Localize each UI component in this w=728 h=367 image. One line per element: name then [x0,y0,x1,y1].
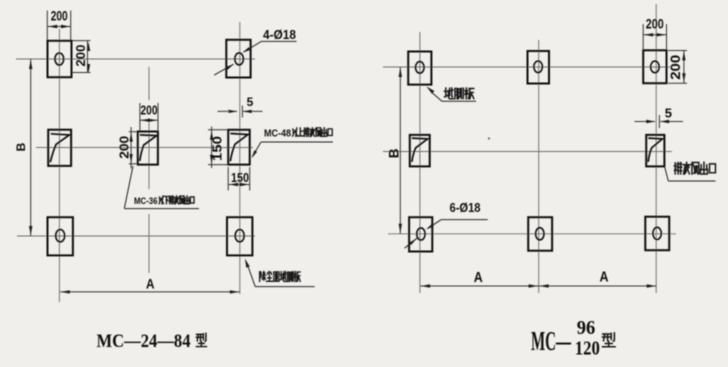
label paihuifa chukou (Q5 callout) [665,162,716,181]
ash valve outlet plate P4 (middle-center) [138,132,158,165]
dimension 150 (width of P5) [228,167,250,191]
svg-text:MC—: MC— [531,326,572,356]
dimension 5 (offset at Q5 centerline) [634,105,683,128]
dimension 200 (height of P4) [117,127,138,169]
svg-text:A: A [146,275,155,291]
svg-text:200: 200 [117,136,132,159]
anchor plate Q1 (top-left, right diagram) [408,52,431,85]
dimension A (column spacing, left diagram) [60,275,239,293]
label MC-48 yishang paihuifa chukou (P5 callout) [252,128,333,159]
dimension B (row spacing, left diagram) [14,59,33,236]
title MC-24-84 xing [97,332,207,352]
ash valve outlet plate P5 (middle-right) [228,130,250,165]
centerline left column 1 [58,29,60,302]
svg-text:A: A [474,269,483,286]
centerline right top row [383,66,670,68]
svg-text:200: 200 [141,103,158,118]
centerline left top row [16,58,255,60]
centerline left column 2 [148,67,150,273]
centerline left bottom row [17,235,255,237]
dimension 200 (height of P1) [73,41,91,73]
svg-text:6-Ø18: 6-Ø18 [450,200,481,215]
anchor plate P1 (top-left) [48,41,72,77]
anchor plate P6 (bottom-left) [48,217,73,255]
centerline left column 3 [239,22,241,294]
dimension B (row spacing, right diagram) [386,67,402,234]
centerline right bottom row [388,233,676,235]
svg-text:150: 150 [209,136,224,161]
anchor plate P7 (bottom-right) [227,217,252,255]
label 4-Ø18 (hole callout, P2) [214,27,296,75]
centerline right column 1 [419,32,421,293]
title MC-96/120 xing [531,317,615,360]
anchor plate Q6 (bottom-left) with 6-hole [409,217,432,251]
svg-text:150: 150 [231,170,249,185]
svg-text:5: 5 [247,95,254,109]
svg-text:MC—24—84: MC—24—84 [97,332,191,352]
anchor plate Q7 (bottom-center) [528,217,552,251]
ash valve outlet plate Q5 (middle-right) [646,135,664,167]
centerline right column 2 [538,40,540,293]
svg-text:A: A [600,268,609,285]
centerline right column 3 [655,4,657,293]
dimension 5 (offset at P5 centerline) [218,95,263,118]
dimension 200 (width of Q3) [643,15,666,50]
svg-text:96: 96 [577,317,596,339]
svg-text:200: 200 [51,8,68,24]
label chuchenqi dijiaoban (anchor plate callout, P7) [245,259,315,287]
svg-text:MC-48: MC-48 [264,128,291,140]
svg-text:200: 200 [646,15,664,31]
dimension 200 (width of P1) [47,8,70,40]
svg-text:5: 5 [665,105,672,120]
svg-text:4-Ø18: 4-Ø18 [263,27,296,42]
anchor plate Q8 (bottom-right) [645,217,669,251]
centerline right middle row [383,151,672,153]
speck [488,137,490,139]
svg-text:MC-36: MC-36 [134,196,158,207]
label dijiaoban (anchor plate callout, Q1) [426,87,476,102]
svg-text:120: 120 [575,338,600,360]
ash valve outlet plate Q4 (middle-left) [410,135,430,167]
anchor plate Q2 (top-center) [528,51,550,84]
speck [228,111,230,113]
label MC-36 yixia paihuifa chukou (P4 callout) [124,166,199,209]
svg-text:B: B [14,142,28,151]
dimension 150 (height of P5) [208,127,228,169]
label 6-Ø18 (hole callout, Q6) [405,200,488,248]
anchor plate P2 (top-right) with 4-hole [226,40,250,78]
svg-text:200: 200 [74,45,88,67]
centerline left middle row [36,147,253,149]
svg-text:200: 200 [668,55,683,80]
ash valve outlet plate P3 (middle-left) [48,130,71,166]
svg-text:B: B [386,148,401,158]
dimension 200 (height of Q3) [668,51,687,84]
dimension 200 (width of P4) [140,103,158,132]
dimension A x2 (column spacing, right diagram) [421,268,657,287]
anchor plate Q3 (top-right) [643,50,666,83]
